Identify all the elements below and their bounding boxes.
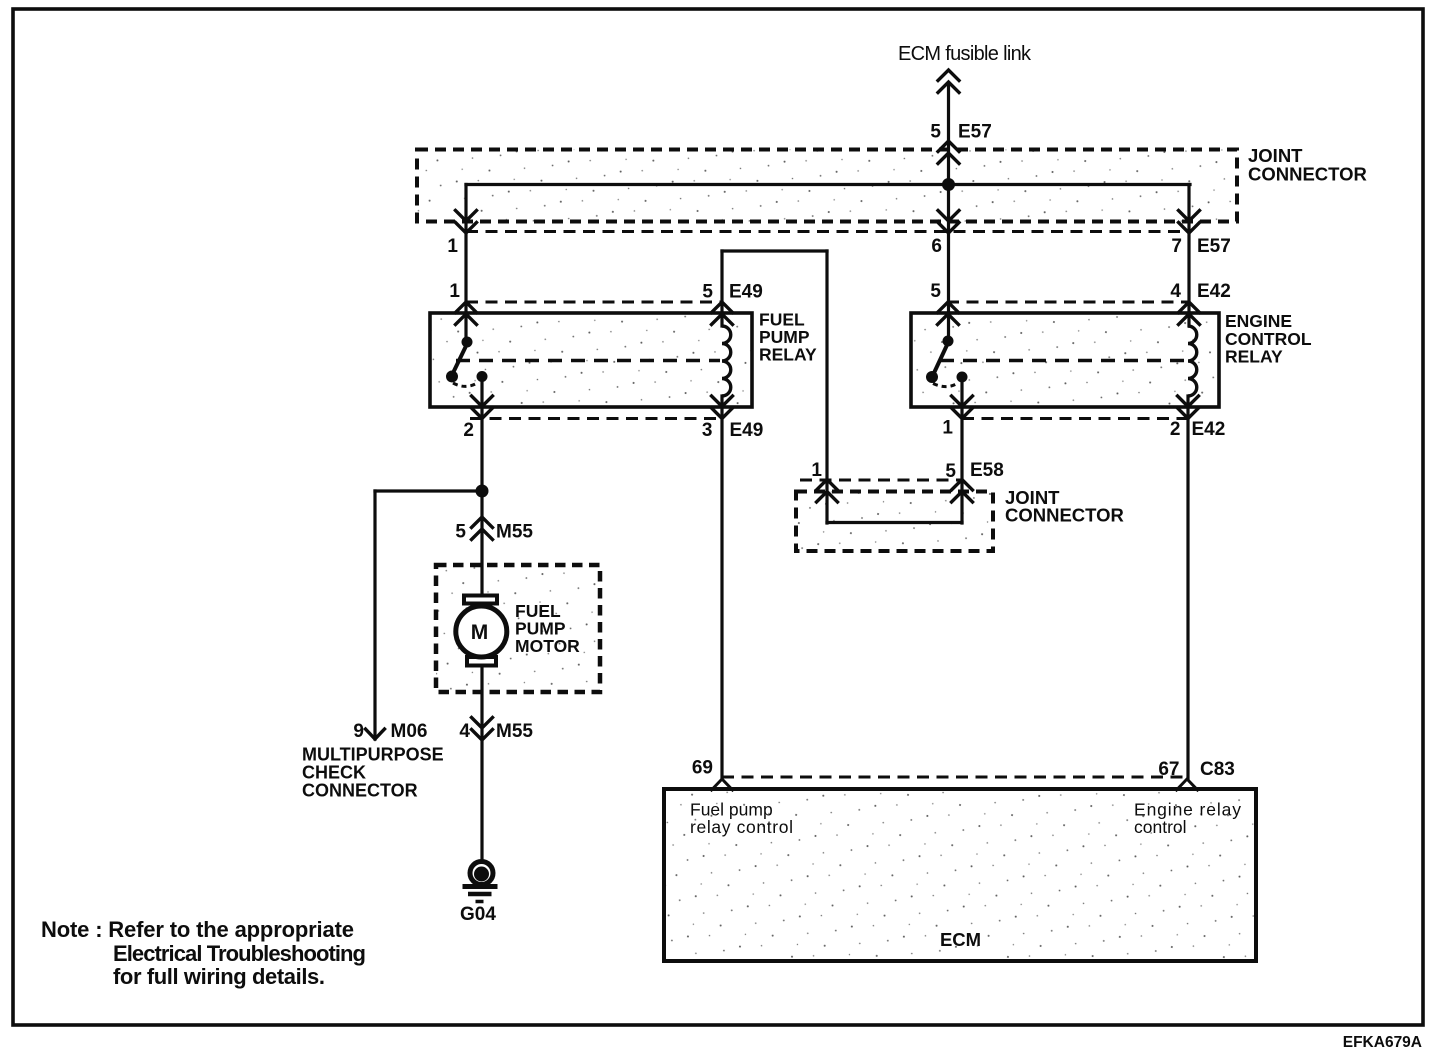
- svg-text:for full wiring details.: for full wiring details.: [113, 964, 325, 989]
- svg-text:5: 5: [930, 281, 941, 302]
- svg-text:5: 5: [945, 461, 956, 482]
- svg-text:E57: E57: [1197, 236, 1231, 257]
- svg-text:CHECK: CHECK: [302, 763, 366, 783]
- svg-text:E42: E42: [1192, 419, 1226, 440]
- svg-text:CONNECTOR: CONNECTOR: [1005, 505, 1124, 526]
- svg-text:E42: E42: [1197, 281, 1231, 302]
- svg-text:control: control: [1134, 817, 1187, 837]
- svg-text:4: 4: [459, 721, 470, 742]
- svg-text:1: 1: [449, 281, 460, 302]
- svg-text:G04: G04: [460, 904, 496, 925]
- svg-text:E49: E49: [730, 420, 764, 441]
- svg-text:Note : Refer to the appropriat: Note : Refer to the appropriate: [41, 917, 354, 942]
- svg-text:1: 1: [447, 236, 458, 257]
- svg-text:M55: M55: [496, 522, 533, 543]
- svg-text:9: 9: [353, 721, 364, 742]
- svg-text:2: 2: [463, 420, 474, 441]
- svg-text:69: 69: [692, 758, 713, 779]
- svg-text:2: 2: [1170, 419, 1181, 440]
- svg-text:M55: M55: [496, 721, 533, 742]
- svg-text:E57: E57: [958, 122, 992, 143]
- svg-text:C83: C83: [1200, 759, 1235, 780]
- svg-text:E58: E58: [970, 460, 1004, 481]
- svg-text:RELAY: RELAY: [759, 345, 817, 365]
- svg-text:RELAY: RELAY: [1225, 347, 1283, 367]
- svg-text:ECM: ECM: [940, 929, 981, 950]
- svg-text:6: 6: [931, 236, 942, 257]
- svg-text:5: 5: [455, 522, 466, 543]
- svg-text:3: 3: [702, 420, 713, 441]
- svg-text:Electrical Troubleshooting: Electrical Troubleshooting: [113, 941, 366, 966]
- svg-text:1: 1: [811, 460, 822, 481]
- svg-text:4: 4: [1170, 281, 1181, 302]
- svg-text:ECM fusible link: ECM fusible link: [898, 43, 1032, 65]
- svg-text:MULTIPURPOSE: MULTIPURPOSE: [302, 745, 444, 765]
- svg-text:M06: M06: [391, 721, 428, 742]
- svg-text:1: 1: [942, 418, 953, 439]
- svg-text:relay control: relay control: [690, 817, 793, 837]
- svg-text:7: 7: [1171, 236, 1182, 257]
- svg-text:5: 5: [702, 282, 713, 303]
- svg-text:5: 5: [930, 122, 941, 143]
- svg-text:MOTOR: MOTOR: [515, 636, 580, 656]
- svg-text:ENGINE: ENGINE: [1225, 311, 1292, 331]
- svg-text:EFKA679A: EFKA679A: [1343, 1034, 1422, 1051]
- svg-text:CONNECTOR: CONNECTOR: [1248, 164, 1367, 185]
- svg-text:67: 67: [1158, 759, 1179, 780]
- svg-text:M: M: [471, 621, 489, 644]
- svg-text:E49: E49: [729, 282, 763, 303]
- svg-text:CONNECTOR: CONNECTOR: [302, 781, 418, 801]
